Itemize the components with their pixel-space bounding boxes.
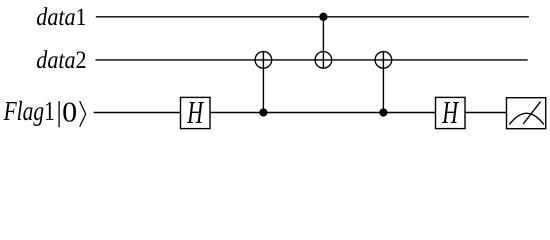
wire data2 — [96, 59, 528, 61]
svg-text:H: H — [187, 94, 205, 130]
wire Flag1 — [94, 112, 507, 114]
wire vertical CNOT1 (data2 target to Flag1 control) — [262, 52, 264, 113]
gate H1 box — [181, 97, 211, 128]
control dot CNOT3 on Flag1 — [379, 108, 387, 116]
target circle CNOT3 on data2 — [375, 52, 392, 69]
svg-text:H: H — [442, 94, 460, 130]
wire data1 — [96, 16, 529, 18]
target circle CNOT1 on data2 — [255, 52, 272, 69]
wire vertical CNOT2 (data1 control to data2 target) — [322, 17, 324, 68]
wire vertical CNOT3 (data2 target to Flag1 control) — [382, 52, 384, 113]
meter arc — [509, 113, 543, 124]
svg-text:data2: data2 — [36, 45, 86, 74]
control dot CNOT2 on data1 — [319, 13, 327, 21]
svg-text:data1: data1 — [36, 2, 86, 31]
target circle CNOT2 on data2 — [315, 52, 332, 69]
svg-text:Flag1: Flag1 — [3, 96, 55, 126]
meter needle — [523, 102, 540, 124]
gate H2 box — [436, 97, 466, 128]
ket angle bracket — [80, 101, 86, 127]
meter box — [507, 98, 546, 129]
control dot CNOT1 on Flag1 — [259, 108, 267, 116]
svg-text:0: 0 — [62, 98, 77, 129]
ket bar | — [58, 101, 60, 127]
